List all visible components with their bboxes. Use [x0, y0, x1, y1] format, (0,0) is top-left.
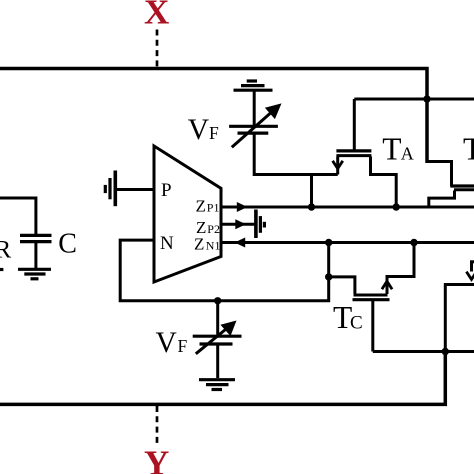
svg-text:A: A [401, 144, 414, 164]
svg-text:C: C [58, 229, 77, 260]
svg-text:P: P [161, 180, 172, 201]
svg-text:Y: Y [144, 443, 169, 474]
svg-text:N: N [160, 233, 174, 254]
svg-text:Z: Z [194, 234, 204, 253]
svg-text:P1: P1 [207, 201, 220, 215]
svg-text:V: V [156, 327, 177, 359]
svg-text:F: F [178, 336, 188, 356]
svg-text:C: C [350, 313, 363, 334]
svg-text:T: T [382, 132, 401, 167]
svg-text:R: R [0, 237, 12, 264]
svg-text:F: F [209, 123, 219, 143]
svg-text:N1: N1 [206, 238, 221, 252]
svg-text:Z: Z [196, 197, 206, 216]
svg-text:T: T [463, 132, 474, 167]
svg-text:P2: P2 [207, 222, 220, 236]
svg-text:V: V [188, 114, 209, 146]
svg-text:X: X [144, 0, 169, 31]
